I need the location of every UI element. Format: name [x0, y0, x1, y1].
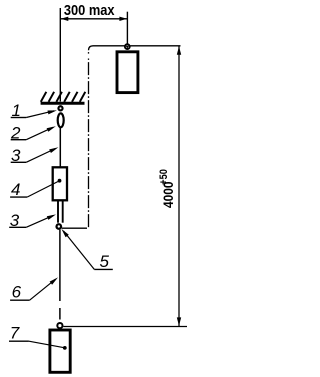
dimension line 4000: [178, 46, 180, 326]
trajectory dash-dot path: [87, 59, 89, 229]
cord 6 segment B: [59, 308, 61, 320]
cord 3 upper: [59, 128, 61, 168]
dimension text 4000+50: [158, 169, 176, 208]
svg-text:5: 5: [100, 252, 110, 271]
extension line top right (to 4000 dimension): [130, 45, 180, 47]
svg-text:300 max: 300 max: [64, 2, 115, 18]
svg-text:+50: +50: [158, 169, 170, 185]
arrowhead right of 300 dimension: [119, 17, 127, 21]
trajectory dot near top corner: [88, 52, 90, 54]
extension line left (suspension axis): [59, 8, 61, 102]
ring 1 (hook): [58, 106, 62, 110]
ring on weight 7: [57, 323, 62, 328]
link 2 (oval): [58, 113, 64, 127]
tube 3 lower (two lines): [57, 201, 59, 223]
arrowhead left of 300 dimension: [61, 17, 69, 21]
trajectory solid lead-in: [62, 227, 87, 229]
arrowhead up of 4000 dimension: [177, 46, 181, 55]
arrowhead down of 4000 dimension: [177, 317, 181, 326]
raised weight body: [117, 52, 138, 93]
dimension line 300 max: [60, 18, 127, 20]
svg-text:6: 6: [12, 283, 22, 302]
svg-text:7: 7: [10, 324, 20, 343]
ring 5: [57, 224, 62, 229]
extension line bottom right: [63, 326, 187, 328]
device 4 body: [53, 167, 67, 200]
arrow tip inside ring: [126, 46, 129, 49]
extension line right (raised cord axis): [126, 12, 128, 44]
svg-text:4: 4: [11, 180, 20, 199]
cord 6 segment A: [59, 230, 61, 301]
ceiling hatch strokes: [41, 92, 86, 102]
ceiling line: [41, 102, 85, 105]
ring raised weight: [125, 44, 130, 49]
weight 7 body: [50, 330, 70, 372]
trajectory top corner solid: [89, 46, 125, 51]
